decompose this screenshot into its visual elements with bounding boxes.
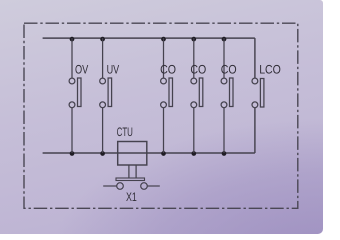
contact LCO [252,78,264,108]
wire: LCO bottom leg [254,108,256,153]
contact UV [100,38,112,153]
wire: X1 right stub [147,185,160,187]
svg-text:UV: UV [107,62,120,76]
connector X1 bar [116,178,145,181]
wire: top bus drop to LCO [254,38,256,78]
svg-text:OV: OV [75,62,89,76]
svg-text:X1: X1 [126,190,137,204]
svg-text:CO: CO [221,62,237,76]
node: bottom bus junction at CO2 [191,151,196,156]
wire: CTU right leg [135,165,137,178]
contact CO2 [191,38,203,153]
wire: CTU left leg [128,165,130,178]
svg-text:CTU: CTU [117,125,133,139]
wire: top bus [43,37,255,39]
node: top bus junction at OV [70,37,75,42]
contact CO1 [161,38,173,153]
wire: bottom bus [43,152,255,154]
connector X1 left pin [117,183,124,190]
node: top bus junction at CO3 [222,37,227,42]
svg-text:CO: CO [190,62,206,76]
node: bottom bus junction at UV [100,151,105,156]
contact CO3 [221,38,233,153]
node: top bus junction at CO2 [191,37,196,42]
node: bottom bus junction at CO3 [222,151,227,156]
svg-text:CO: CO [160,62,176,76]
node: bottom bus junction at OV [70,151,75,156]
svg-text:LCO: LCO [259,62,281,76]
contact OV [69,38,81,153]
node: top bus junction at CO1 [161,37,166,42]
node: top bus junction at UV [100,37,105,42]
relay box CTU [118,142,147,166]
wire: X1 left stub [103,185,117,187]
dash-dot boundary frame [24,23,298,208]
node: bottom bus junction at CO1 [161,151,166,156]
connector X1 right pin [141,183,148,190]
